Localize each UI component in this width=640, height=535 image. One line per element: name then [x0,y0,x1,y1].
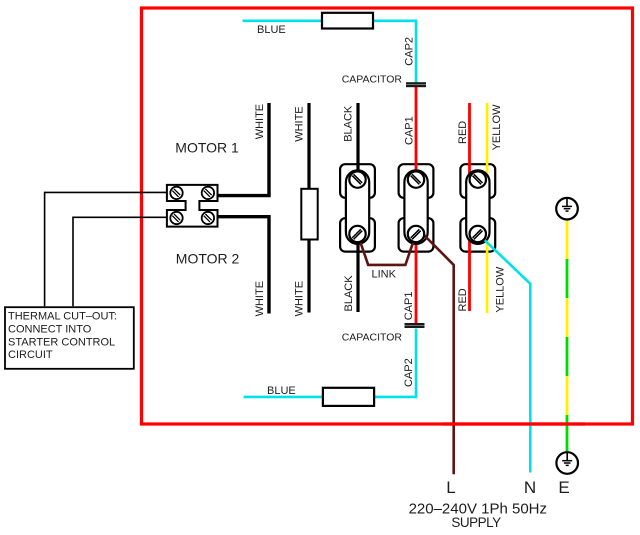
wire thermal lower [73,217,166,306]
svg-text:WHITE: WHITE [254,104,266,139]
terminal block pills [346,170,490,244]
svg-text:RED: RED [457,288,469,311]
terminal block pads [340,164,495,251]
terminal block 1 pill [346,170,369,244]
screw block2 top [408,171,424,187]
slot block3 bottom [473,229,483,239]
capacitor symbol top [406,82,426,87]
earth symbol in box [556,198,578,220]
thermal cut-out box [5,307,134,369]
svg-text:YELLOW: YELLOW [491,104,503,150]
svg-text:CAP2: CAP2 [403,37,415,66]
wire blue top (cyan) [243,21,417,83]
svg-text:WHITE: WHITE [254,281,266,316]
enclosure border bottom edge (over supply wires) [442,422,585,425]
slot motor tr [204,189,212,197]
enclosure box (red border) [142,8,633,424]
inline connector block on bottom blue wire [323,388,374,406]
capacitor symbol bottom [405,323,425,328]
svg-text:SUPPLY: SUPPLY [451,515,501,530]
wire thermal upper [45,192,166,306]
terminal block 1 top pad [340,164,375,198]
svg-text:MOTOR 1: MOTOR 1 [175,139,239,155]
slot block1 top [352,174,362,184]
motor screw top-right [202,187,214,199]
slot block2 bottom [411,229,421,239]
wire link (maroon) between block1 and block2 bottom screws [358,234,417,265]
wire blue bottom (cyan) [244,329,416,397]
screw block3 bottom [470,226,486,242]
screw block2 bottom [408,226,424,242]
slot block3 top [473,174,483,184]
svg-text:N: N [524,478,536,497]
slot motor br [204,214,212,222]
earth wire (green/yellow) inside box [566,220,569,453]
motor screw top-left [170,187,182,199]
terminal block 3 pill [466,170,489,244]
svg-text:BLACK: BLACK [343,275,355,312]
terminal block 3 top pad [460,164,495,198]
screw block3 top [470,171,486,187]
terminal block 3 bottom pad [460,218,495,251]
terminal block 1 bottom pad [340,218,375,251]
svg-text:BLACK: BLACK [342,105,354,142]
slot block2 top [411,174,421,184]
wire neutral supply (cyan) from block3 to N [478,234,530,473]
motor terminal block (4-screw) [167,185,218,227]
svg-text:CAPACITOR: CAPACITOR [342,73,403,85]
svg-text:WHITE: WHITE [294,106,306,141]
svg-text:RED: RED [457,121,469,144]
svg-text:CAP1: CAP1 [403,116,415,145]
svg-text:CAP2: CAP2 [403,358,415,387]
inline component box on white wire 2 [301,189,317,240]
svg-text:LINK: LINK [372,268,397,280]
terminal screws [349,171,486,242]
wire white 2 [307,103,310,313]
wire live supply (maroon) from block2 to L [417,228,454,474]
screw block1 bottom [349,226,365,242]
wire white 1 lower (motor 2 lead) [216,217,269,314]
label thermal cut-out text [8,311,117,362]
svg-text:CONNECT INTO: CONNECT INTO [8,323,92,335]
svg-text:CAP1: CAP1 [403,292,415,321]
slot block1 bottom [352,229,362,239]
screw block1 top [349,171,365,187]
wire black (motor lead through block 1) [356,103,359,312]
slot motor bl [172,214,180,222]
motor screw bottom-right [202,212,214,224]
motor screw bottom-left [170,212,182,224]
terminal block 2 pill [404,170,427,244]
earth symbol at supply E [556,452,578,474]
svg-text:BLUE: BLUE [257,24,286,36]
terminal block 2 bottom pad [399,218,434,251]
terminal block 2 top pad [399,164,434,198]
svg-text:THERMAL CUT–OUT:: THERMAL CUT–OUT: [8,311,117,323]
wire CAP1 red (capacitor lead through block 2) [415,86,418,324]
svg-text:CAPACITOR: CAPACITOR [342,332,403,344]
wire red (through block 3) [468,103,471,311]
svg-text:MOTOR 2: MOTOR 2 [176,251,240,267]
svg-text:E: E [558,478,569,497]
svg-text:BLUE: BLUE [267,385,296,397]
svg-text:CIRCUIT: CIRCUIT [8,349,53,361]
svg-text:YELLOW: YELLOW [495,266,507,312]
slot motor tl [172,189,180,197]
wire yellow (through block 3) [486,103,489,313]
svg-text:WHITE: WHITE [294,281,306,316]
wire white 1 (motor 1 lead) [216,103,269,196]
svg-text:STARTER CONTROL: STARTER CONTROL [8,336,115,348]
svg-text:L: L [446,478,455,497]
inline connector block on top blue wire [322,13,373,29]
